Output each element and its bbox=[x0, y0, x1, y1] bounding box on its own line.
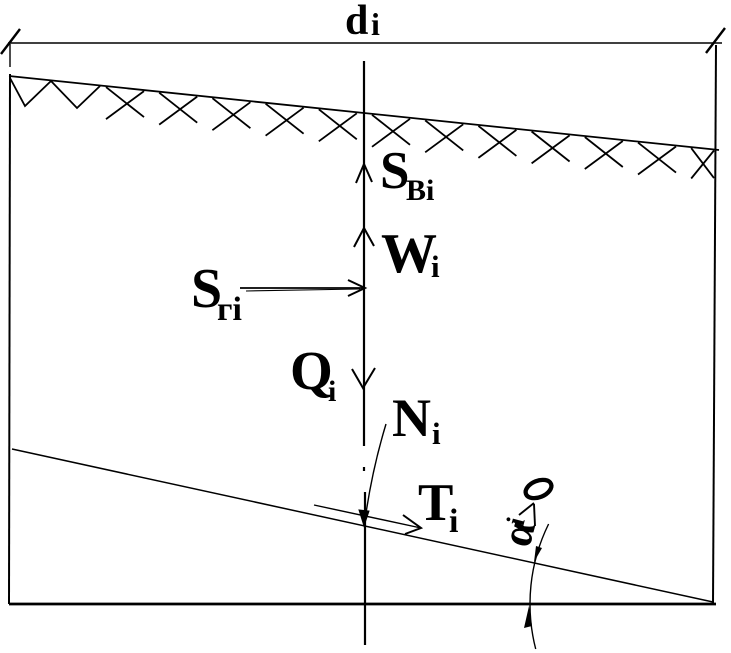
slip surface line bbox=[12, 449, 713, 602]
ground hatching zigzag bbox=[10, 78, 100, 108]
center slice line small dash bbox=[363, 467, 365, 471]
right dimension tick bbox=[706, 28, 725, 53]
arc arrowhead at slip line bbox=[534, 546, 542, 562]
left dimension tick bbox=[1, 29, 20, 54]
box bottom border bbox=[9, 603, 716, 606]
arrow Wi up bbox=[354, 228, 374, 247]
left extension line bbox=[9, 44, 11, 67]
ground surface line bbox=[9, 76, 719, 150]
center slice line (upper) bbox=[363, 61, 365, 446]
svg-text:i: i bbox=[328, 375, 336, 408]
arc arrowhead at bottom border bbox=[524, 606, 532, 628]
T direction line bbox=[314, 505, 421, 528]
box right border bbox=[713, 45, 716, 604]
N arrowhead bbox=[359, 510, 369, 526]
svg-text:гi: гi bbox=[217, 291, 242, 328]
svg-text:W: W bbox=[381, 223, 437, 285]
arrow Svi up bbox=[356, 164, 372, 183]
svg-text:i: i bbox=[449, 503, 458, 540]
box left border bbox=[9, 74, 10, 604]
arrow Sgi horizontal bbox=[240, 287, 364, 289]
small arrow to zero bbox=[519, 503, 535, 526]
svg-text:Q: Q bbox=[290, 340, 333, 401]
svg-text:d: d bbox=[345, 0, 368, 44]
arrow Qi down bbox=[352, 368, 375, 388]
ground hatching X marks bbox=[106, 87, 714, 178]
dimension line di bbox=[8, 42, 722, 44]
angle arc alpha_i bbox=[530, 524, 549, 649]
svg-text:i: i bbox=[432, 416, 441, 451]
svg-text:Bi: Bi bbox=[406, 174, 434, 207]
svg-text:i: i bbox=[431, 249, 440, 284]
label alpha_i rotated bbox=[491, 515, 545, 552]
zero ellipse bbox=[523, 476, 554, 501]
center slice line (lower) bbox=[364, 492, 366, 645]
N direction line bbox=[365, 424, 386, 520]
svg-text:N: N bbox=[392, 388, 431, 448]
T arrowhead bbox=[403, 515, 421, 534]
svg-text:i: i bbox=[371, 6, 380, 42]
